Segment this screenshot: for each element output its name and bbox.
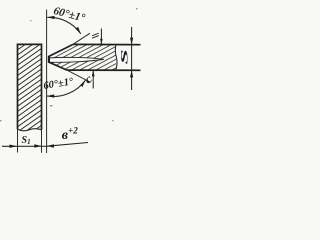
bottom dimension line (S1 and gap b) — [2, 143, 88, 147]
S1 left arrow — [10, 145, 18, 148]
gap right arrow — [47, 144, 54, 147]
vertical plate (left, hatched) — [18, 44, 42, 130]
dimension S (plate thickness, right) — [120, 27, 133, 90]
horizontal plate (right, double-bevelled end, hatched) — [49, 44, 141, 70]
long vertical extension line (gap reference) — [46, 10, 48, 154]
equality tick mark 1 — [92, 33, 99, 36]
break line (right end of plate) — [115, 44, 117, 70]
equality tick mark 2 — [92, 36, 99, 39]
gap left arrow — [34, 144, 41, 147]
top bevel extension line — [72, 33, 91, 45]
plate bottom edge + extension — [67, 69, 141, 71]
extension line (vertical plate left face) — [17, 129, 19, 152]
bottom angle dimension arc 60deg — [47, 80, 86, 98]
extension line (vertical plate right face) — [41, 130, 43, 153]
top angle dimension arc 60deg — [47, 16, 81, 34]
small vertical arrow onto plate top — [100, 29, 103, 45]
plate outline — [49, 44, 73, 70]
scan speckles — [0, 8, 138, 122]
plate top edge + extension — [73, 43, 141, 45]
dimension c (root face) — [82, 70, 95, 88]
weld lens (white) — [49, 57, 104, 62]
bottom bevel extension line — [67, 70, 91, 82]
root face — [48, 56, 50, 63]
svg-text:S: S — [120, 49, 130, 64]
